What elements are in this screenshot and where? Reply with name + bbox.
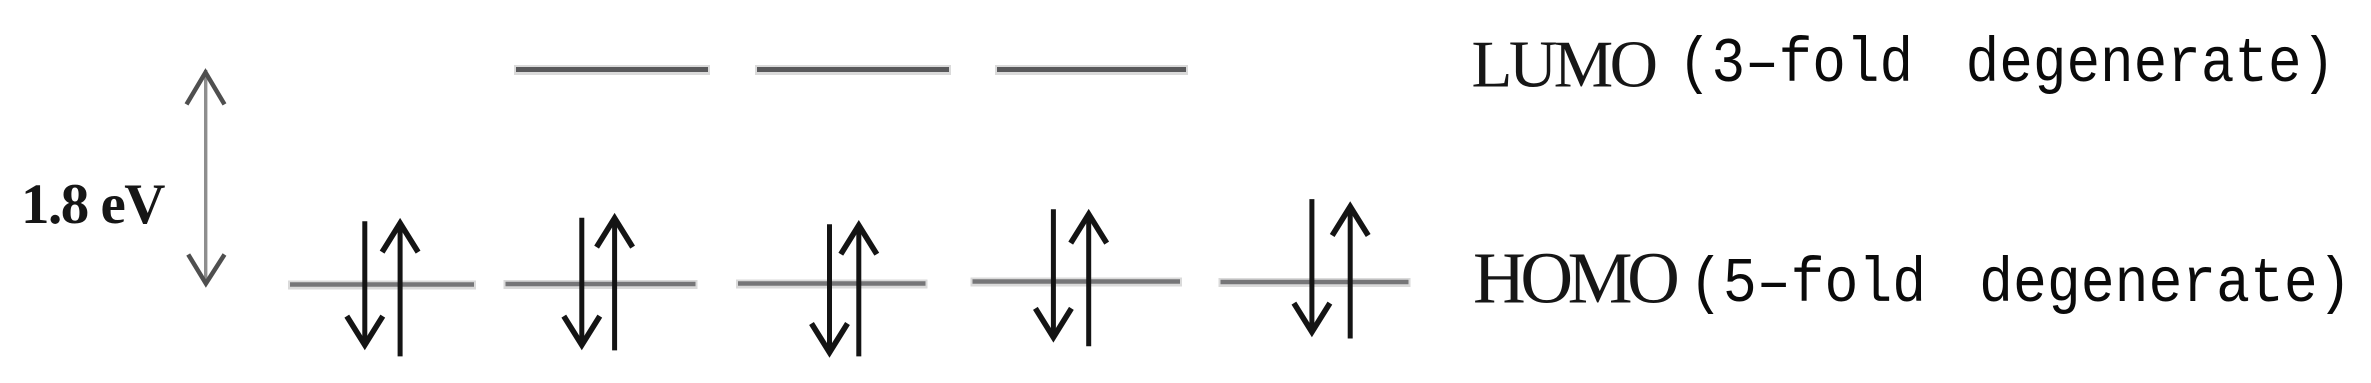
- electron down-spin arrow level 1: [347, 221, 383, 345]
- svg-text:(3–fold degenerate): (3–fold degenerate): [1678, 29, 2335, 100]
- label (5-fold degenerate): [1689, 248, 2352, 319]
- LUMO level line 1: [514, 65, 710, 76]
- electron down-spin arrow level 3: [812, 224, 848, 352]
- svg-text:1.8 eV: 1.8 eV: [21, 173, 165, 236]
- energy gap arrowhead top: [187, 73, 225, 105]
- LUMO level line 3: [995, 65, 1188, 76]
- HOMO level line 1: [288, 280, 476, 290]
- HOMO level line 3: [736, 279, 928, 289]
- electron up-spin arrow level 2: [597, 218, 633, 350]
- HOMO level line 2: [504, 280, 698, 290]
- electron down-spin arrow level 5: [1294, 199, 1330, 332]
- label HOMO: [1473, 238, 1677, 319]
- LUMO level line 2: [755, 65, 951, 76]
- label LUMO: [1472, 28, 1656, 102]
- HOMO level line 4: [971, 277, 1183, 287]
- electron up-spin arrow level 5: [1332, 207, 1368, 339]
- electron up-spin arrow level 1: [382, 223, 418, 356]
- energy gap double arrow shaft: [204, 70, 207, 284]
- label 1.8 eV: [21, 173, 165, 236]
- svg-text:(5–fold degenerate): (5–fold degenerate): [1689, 248, 2352, 319]
- svg-text:LUMO: LUMO: [1472, 28, 1656, 102]
- HOMO level line 5: [1219, 278, 1411, 288]
- electron up-spin arrow level 3: [841, 225, 877, 356]
- electron down-spin arrow level 2: [564, 218, 600, 345]
- energy gap arrowhead bottom: [188, 255, 224, 284]
- electron down-spin arrow level 4: [1035, 209, 1071, 337]
- electron up-spin arrow level 4: [1071, 214, 1107, 346]
- svg-text:HOMO: HOMO: [1473, 238, 1677, 319]
- label (3-fold degenerate): [1678, 29, 2335, 100]
